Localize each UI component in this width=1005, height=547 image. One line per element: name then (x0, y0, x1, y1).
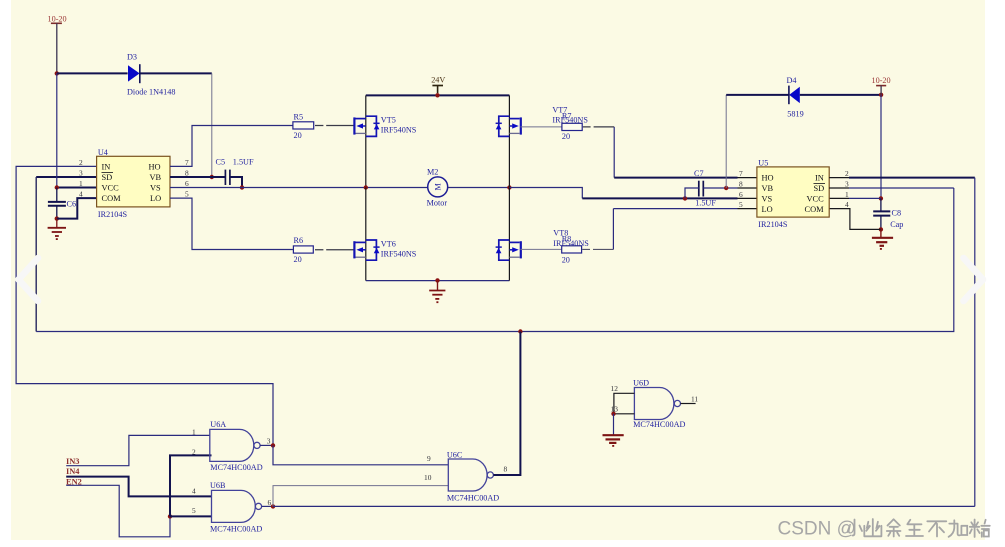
svg-text:R8: R8 (562, 234, 572, 243)
svg-text:R7: R7 (562, 112, 572, 121)
wire U6B output to node (262, 505, 273, 507)
svg-text:2: 2 (79, 158, 83, 167)
svg-text:11: 11 (691, 394, 698, 403)
node: D4 / 10-20 junction (879, 93, 883, 97)
svg-text:10: 10 (424, 473, 432, 482)
svg-text:3: 3 (79, 169, 83, 178)
svg-text:MC74HC00AD: MC74HC00AD (447, 494, 499, 503)
svg-text:2: 2 (192, 447, 196, 456)
wire junction to U6B pin5 (170, 515, 212, 517)
svg-text:VCC: VCC (807, 194, 825, 203)
wire bottom rail (366, 280, 510, 282)
svg-text:IRF540NS: IRF540NS (381, 249, 417, 258)
node: C6 bottom / COM junction (55, 216, 59, 220)
wire VT8 gate to R8 (520, 248, 561, 250)
wire EN2 down, around to pin5 junction (66, 485, 170, 537)
svg-text:U5: U5 (758, 159, 768, 168)
svg-text:4: 4 (192, 486, 196, 495)
nand gate U6A (192, 420, 271, 472)
wire VS step: motor row right to U5 VS (509, 188, 582, 199)
svg-text:R6: R6 (294, 236, 304, 245)
wire R5 to VT5 gate (315, 125, 354, 127)
svg-text:3: 3 (267, 437, 271, 446)
svg-text:4: 4 (79, 190, 83, 199)
wire VT5 drain from rail (365, 95, 367, 187)
svg-text:7: 7 (185, 158, 189, 167)
resistor R7 (562, 112, 582, 141)
svg-text:M: M (434, 183, 443, 191)
motor M2 (427, 168, 448, 208)
svg-text:7: 7 (739, 169, 743, 178)
svg-text:IR2104S: IR2104S (758, 220, 788, 229)
svg-text:1: 1 (79, 179, 83, 188)
svg-text:IN3: IN3 (66, 457, 80, 466)
svg-text:20: 20 (294, 131, 302, 140)
svg-text:VB: VB (150, 173, 162, 182)
svg-text:20: 20 (562, 132, 570, 141)
wire U5 VCC to node (829, 197, 849, 199)
node: C8 bottom / COM junction (879, 227, 883, 231)
svg-text:Diode 1N4148: Diode 1N4148 (127, 87, 175, 96)
node: C5 to VS junction (240, 185, 244, 189)
svg-text:COM: COM (805, 205, 825, 214)
wire C7 right plate to VB row (703, 187, 737, 189)
svg-text:MC74HC00AD: MC74HC00AD (210, 525, 262, 534)
wire R7 right, down to U5 HO row (583, 126, 614, 128)
wire U4 COM to C6 bottom (57, 198, 97, 219)
svg-text:Cap: Cap (890, 220, 903, 229)
svg-text:20: 20 (294, 255, 302, 264)
svg-text:20: 20 (562, 255, 570, 264)
svg-text:Motor: Motor (427, 199, 448, 208)
svg-text:5819: 5819 (787, 109, 803, 118)
svg-text:VB: VB (762, 184, 774, 193)
wire VT7 gate to R7 (520, 126, 562, 128)
svg-text:LO: LO (762, 205, 773, 214)
node: U5 VCC junction (879, 196, 883, 200)
svg-text:24V: 24V (431, 76, 445, 85)
wire U4 LO down to R6 row (170, 198, 293, 249)
svg-text:1.5UF: 1.5UF (695, 198, 716, 207)
wire U4 SD net: pin3 left, down to long horizontal (36, 176, 96, 178)
node: bridge left midpoint (364, 185, 368, 189)
transistor VT6 IRF540NS (354, 239, 416, 260)
power port 10-20 (right) (872, 76, 891, 95)
wire U5 IN right, down long vertical to U6B output net (829, 177, 849, 179)
node: bridge ground junction (435, 278, 439, 282)
wire U6B out up to U6C pin10 (273, 486, 448, 507)
svg-text:VS: VS (150, 184, 161, 193)
wire D4 cathode to 10-20 node (800, 94, 881, 96)
svg-text:10-20: 10-20 (872, 76, 891, 85)
svg-text:U6D: U6D (633, 379, 649, 388)
wire U5 HO row (614, 177, 737, 179)
wire U4 VB to C5 (170, 176, 225, 178)
svg-text:3: 3 (845, 179, 849, 188)
svg-text:2: 2 (845, 169, 849, 178)
svg-text:1.5UF: 1.5UF (233, 157, 254, 166)
resistor R5 (293, 113, 314, 140)
svg-text:MC74HC00AD: MC74HC00AD (210, 463, 262, 472)
wire IN4 to U6B pin4 (66, 477, 211, 497)
wire VT8 drain (508, 188, 510, 281)
wire U4 IN net: pin2 left, down, right, down to U6A output (16, 166, 273, 443)
node: EN2 / pin5 junction (168, 514, 172, 518)
svg-text:4: 4 (845, 200, 849, 209)
nand gate U6D (611, 379, 699, 429)
svg-text:VCC: VCC (102, 184, 120, 193)
svg-text:IN: IN (102, 162, 111, 171)
svg-text:U6B: U6B (210, 481, 226, 490)
wire D3 cathode to corner, down to VB node (140, 72, 212, 74)
transistor VT8 IRF540NS (mirrored) (496, 229, 590, 261)
wire U5 LO row (613, 208, 737, 210)
node: C7 bottom junction on VS (683, 196, 687, 200)
svg-text:SD: SD (102, 173, 113, 182)
node: U6C output tee on SD net (518, 329, 522, 333)
wire motor right to bridge right (448, 187, 510, 189)
node: U6D pin13 junction (611, 412, 615, 416)
ground below U6D (603, 435, 624, 447)
svg-text:LO: LO (150, 194, 161, 203)
wire U4 HO up to R5 row (170, 126, 293, 167)
wire IN3 to U6A pin1 (66, 435, 210, 465)
capacitor C5 (216, 157, 254, 185)
svg-text:10-20: 10-20 (48, 14, 67, 23)
watermark CSDN (778, 519, 856, 540)
svg-text:IN4: IN4 (66, 467, 80, 476)
wire U5 COM to C8 bottom (829, 209, 881, 230)
wire U6A out down to U6C pin9 (273, 445, 448, 464)
svg-text:VT6: VT6 (381, 239, 396, 248)
node: U4 VCC junction (55, 185, 59, 189)
watermark hanzi 小幽余生不加糖 (drawn strokes) (848, 519, 990, 537)
resistor R8 (562, 234, 582, 264)
svg-text:12: 12 (611, 384, 619, 393)
svg-text:D3: D3 (127, 53, 137, 62)
wire H-bridge top rail (366, 94, 510, 96)
svg-text:8: 8 (739, 179, 743, 188)
capacitor C7 (694, 169, 716, 208)
svg-text:8: 8 (504, 464, 508, 473)
svg-text:COM: COM (102, 194, 122, 203)
node: U4 VB / C5 junction (210, 175, 214, 179)
wire VT7 drain from rail (508, 95, 510, 187)
wire R6 to VT6 gate (315, 249, 354, 251)
power port 24V (431, 76, 445, 94)
IC U5 IR2104S (739, 159, 849, 230)
diode D4 (pointing left) (787, 76, 804, 119)
carousel chevron left (19, 258, 39, 301)
svg-text:U6A: U6A (210, 420, 226, 429)
svg-text:IRF540NS: IRF540NS (381, 125, 417, 134)
wire U6D inputs tied (614, 393, 635, 414)
diode D3 (127, 53, 175, 97)
node: U6B output junction (271, 504, 275, 508)
svg-text:C7: C7 (694, 169, 704, 178)
carousel chevron right (964, 258, 984, 301)
svg-text:M2: M2 (427, 168, 438, 177)
wire U6B out long horizontal to right vertical (273, 505, 975, 507)
svg-text:5: 5 (192, 506, 196, 515)
node: D4 to VB junction (724, 186, 728, 190)
svg-text:U6C: U6C (447, 450, 463, 459)
wire R8 right, up to U5 LO row (582, 248, 613, 250)
svg-text:6: 6 (268, 498, 272, 507)
nand gate U6C (424, 450, 508, 502)
capacitor C8 (873, 198, 903, 229)
svg-text:1: 1 (845, 190, 849, 199)
wire U6A output to node (260, 444, 273, 446)
svg-text:HO: HO (762, 174, 774, 183)
svg-text:1: 1 (192, 427, 196, 436)
svg-text:C5: C5 (216, 157, 226, 166)
node: U6A output junction (271, 443, 275, 447)
svg-text:IR2104S: IR2104S (98, 210, 128, 219)
wire U6C output up to SD net (493, 332, 520, 476)
svg-text:9: 9 (427, 454, 431, 463)
svg-text:R5: R5 (294, 113, 304, 122)
resistor R6 (293, 236, 313, 264)
wire U5 SD right to corner (829, 187, 849, 189)
svg-text:6: 6 (185, 179, 189, 188)
IC U4 IR2104S (79, 148, 189, 219)
svg-text:HO: HO (149, 162, 161, 171)
wire C5 to VS row (230, 177, 242, 188)
svg-text:CSDN @: CSDN @ (778, 519, 856, 540)
wire D4 vertical to VB (725, 95, 727, 188)
transistor VT7 IRF540NS (mirrored) (496, 105, 589, 136)
wire U4 VCC from 10-20 vertical (56, 73, 58, 187)
wire U6D inputs to ground (613, 414, 615, 435)
svg-text:C8: C8 (892, 208, 902, 217)
svg-text:6: 6 (739, 190, 743, 199)
power port 10-20 (left) (48, 14, 67, 73)
wire D3 anode (57, 72, 128, 74)
capacitor C6 (48, 188, 76, 219)
ground below C6 (48, 219, 66, 240)
wire SD long horizontal to U5 SD vertical (36, 188, 954, 332)
svg-text:D4: D4 (787, 76, 797, 85)
nand gate U6B (192, 481, 272, 533)
svg-text:MC74HC00AD: MC74HC00AD (633, 420, 685, 429)
svg-text:U4: U4 (98, 148, 108, 157)
wire junction up to U6A pin2 (170, 455, 212, 516)
ground below bridge (429, 281, 445, 303)
node: 24V junction (435, 93, 439, 97)
svg-text:IN: IN (815, 174, 824, 183)
svg-text:5: 5 (185, 190, 189, 199)
wire U6D output stub (681, 403, 696, 405)
svg-text:VT5: VT5 (381, 115, 396, 124)
svg-text:SD: SD (814, 184, 825, 193)
node: D3 anode junction (55, 71, 59, 75)
wire 10-20 down to U5 VCC (880, 95, 882, 199)
wire D4 anode row (726, 94, 789, 96)
transistor VT5 IRF540NS (354, 115, 416, 136)
svg-text:C6: C6 (67, 200, 77, 209)
wire U4 VS row to motor (170, 187, 428, 189)
wire C7 left plate to VS (685, 188, 699, 198)
svg-text:5: 5 (739, 200, 743, 209)
node: bridge right midpoint (507, 185, 511, 189)
svg-text:VS: VS (762, 194, 773, 203)
ground below C8 (872, 229, 893, 249)
wire VT6 drain (365, 188, 367, 281)
